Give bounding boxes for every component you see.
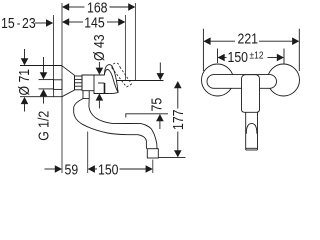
svg-text:Ø 71: Ø 71 [16, 69, 32, 96]
component handle front view [242, 75, 260, 113]
component left escutcheon front view [202, 64, 234, 96]
wire 145 reference line [124, 15, 126, 81]
node bottom reference line spout axis [87, 132, 89, 174]
node bottom reference line outlet axis [152, 160, 154, 174]
node dimension 150pm12 extension lines [217, 49, 219, 64]
node dimension 150pm12 [218, 48, 285, 65]
wire main wall reference line [61, 3, 63, 173]
svg-text:150: 150 [228, 49, 249, 65]
svg-text:Ø 43: Ø 43 [91, 34, 107, 61]
component union nut ribbed [75, 76, 83, 90]
node dimension 168 [62, 0, 135, 16]
component handle alternate position dashed [112, 63, 132, 87]
component wall nipple square [54, 80, 63, 90]
svg-text:G 1/2: G 1/2 [35, 111, 51, 141]
svg-text:150: 150 [98, 161, 119, 177]
svg-text:23: 23 [22, 15, 36, 31]
node dimension 15-23 [1, 15, 53, 31]
node dimension D71 extension lines [20, 65, 62, 67]
node dimension 221 extension lines [202, 29, 204, 71]
component spout front view [246, 112, 258, 150]
node dimension 221 [203, 30, 299, 46]
component body pill front view [207, 75, 277, 89]
node dimension 177 bottom reference line [159, 157, 186, 159]
svg-text:59: 59 [65, 161, 79, 177]
node dimension 145 [62, 14, 125, 30]
component faucet body side view [82, 75, 118, 94]
component escutcheon cone side view [62, 66, 75, 97]
svg-text:75: 75 [148, 97, 164, 111]
component right escutcheon front view [268, 64, 300, 96]
wire 168 reference line [134, 3, 136, 81]
svg-text:177: 177 [170, 109, 186, 130]
svg-text:221: 221 [238, 30, 259, 46]
wire wall reference line short [53, 15, 55, 97]
node dimension G12 arrows and label [35, 57, 51, 141]
node dimension 177 arrows and label [170, 81, 186, 157]
component spout collar [83, 91, 89, 99]
component spout outlet nozzle [147, 149, 158, 158]
node dimension G12 extension lines [39, 79, 54, 81]
component spout tube side view [74, 99, 157, 149]
svg-text:15: 15 [1, 15, 15, 31]
svg-text:145: 145 [84, 14, 105, 30]
svg-text:±12: ±12 [250, 48, 264, 60]
component lever handle side view [104, 65, 118, 93]
node dimension 59 [45, 161, 79, 177]
node dimension 150 [88, 161, 153, 177]
node dimension D43 label and arrows [91, 34, 107, 108]
svg-text:-: - [17, 16, 21, 31]
node dimension D71 arrows and label [16, 49, 32, 112]
svg-text:168: 168 [87, 0, 108, 16]
node dimension 75 arrows and label [148, 63, 164, 130]
node dimension 75 reference lines [114, 80, 164, 82]
